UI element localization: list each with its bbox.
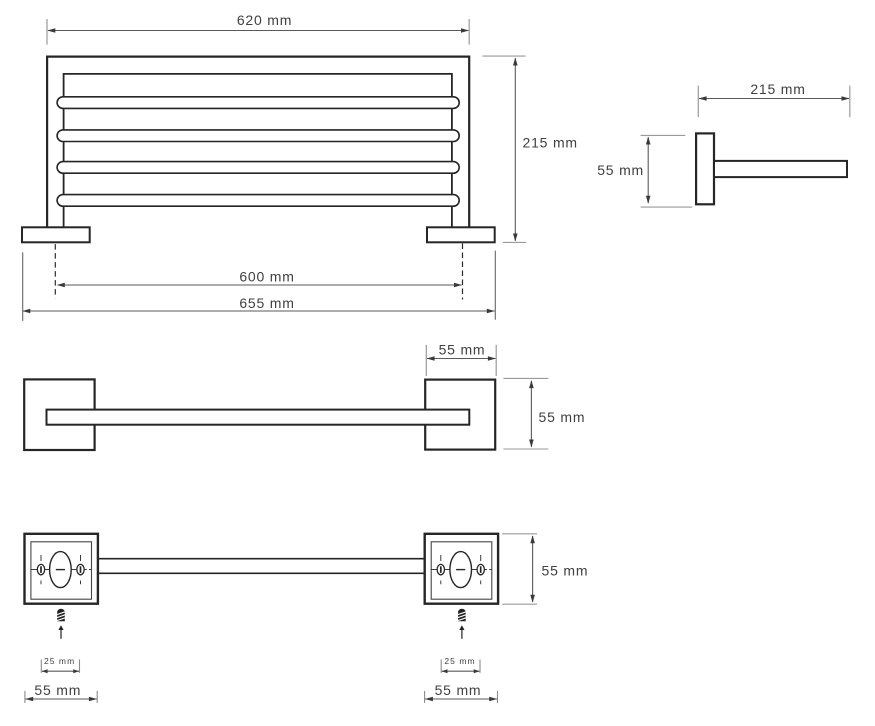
dimension 600 mm arrow right bbox=[454, 283, 462, 288]
rail 2 bbox=[57, 130, 459, 142]
dimension 55 mm bottom-view-right arrow bottom bbox=[530, 595, 535, 603]
bottom left plate center dash bbox=[56, 569, 65, 571]
svg-text:215 mm: 215 mm bbox=[523, 135, 578, 151]
svg-text:55 mm: 55 mm bbox=[597, 162, 644, 178]
dimension 55 mm side arrow top bbox=[646, 137, 651, 145]
dimension 655 mm extension right bbox=[494, 251, 496, 320]
dimension 55 mm bottom-view-right line bbox=[532, 536, 534, 602]
dimension 55 mm bottom-right arrow R bbox=[489, 697, 497, 702]
bottom right plate horizontal centerline bbox=[431, 569, 492, 571]
rail 4 bbox=[57, 195, 459, 207]
svg-text:620 mm: 620 mm bbox=[237, 12, 292, 28]
dimension 215 mm side tick left bbox=[697, 86, 699, 118]
dimension 25 mm left line bbox=[42, 670, 79, 672]
svg-text:55 mm: 55 mm bbox=[539, 409, 586, 425]
dimension 215 mm front extension top bbox=[482, 55, 525, 57]
bottom left hole L bbox=[37, 564, 44, 574]
dimension 25 mm right arrow R bbox=[474, 669, 480, 673]
bottom bar bottom edge bbox=[98, 572, 425, 574]
dimension 55 mm bottom-view-right extension top bbox=[502, 533, 537, 535]
dimension 655 mm line bbox=[23, 310, 495, 312]
mid left square bbox=[24, 379, 94, 450]
side arm bbox=[714, 161, 847, 177]
dimension 55 mm mid-right extension bottom bbox=[503, 448, 548, 450]
dimension 600 mm line bbox=[58, 284, 462, 286]
side wall plate bbox=[696, 133, 714, 204]
dimension 655 mm arrow right bbox=[487, 309, 495, 314]
dashed centerline right foot bbox=[462, 244, 464, 300]
svg-text:215 mm: 215 mm bbox=[750, 81, 805, 97]
bottom left hole L centerline bbox=[40, 555, 42, 584]
bottom bar top edge bbox=[98, 558, 425, 560]
dimension 215 mm front line bbox=[514, 58, 516, 241]
left screw arrow bbox=[58, 625, 63, 639]
svg-text:25 mm: 25 mm bbox=[44, 656, 75, 666]
dimension 215 mm front arrow bottom bbox=[513, 234, 518, 242]
bottom left plate center ellipse bbox=[50, 552, 72, 588]
dimension 55 mm bottom-right arrow L bbox=[425, 697, 433, 702]
right foot bbox=[427, 227, 495, 242]
dimension 55 mm bottom-left arrow R bbox=[89, 697, 97, 702]
dimension 215 mm side arrow left bbox=[699, 96, 707, 101]
dimension 25 mm right line bbox=[442, 670, 479, 672]
dimension 215 mm front arrow top bbox=[513, 58, 518, 66]
dimension 25 mm right tick L bbox=[440, 660, 442, 673]
dimension 55 mm bottom-left tick R bbox=[96, 691, 98, 703]
dimension 55 mm bottom-right line bbox=[425, 698, 497, 700]
dimension 25 mm left arrow R bbox=[73, 669, 79, 673]
rail 3 bbox=[57, 162, 459, 174]
bottom left hole R bbox=[77, 564, 84, 574]
dimension 620 mm extension tick left bbox=[46, 19, 48, 45]
dimension 25 mm right arrow L bbox=[442, 669, 448, 673]
bottom right hole R centerline bbox=[480, 555, 482, 584]
dimension 55 mm mid-right extension top bbox=[503, 377, 548, 379]
svg-text:655 mm: 655 mm bbox=[239, 295, 294, 311]
dimension 215 mm side arrow right bbox=[842, 96, 850, 101]
dimension 215 mm side line bbox=[699, 98, 849, 100]
dimension 600 mm arrow left bbox=[57, 283, 65, 288]
dimension 215 mm front extension bottom bbox=[503, 241, 526, 243]
svg-text:55 mm: 55 mm bbox=[435, 682, 482, 698]
bottom left hole R slot bbox=[80, 566, 82, 573]
bottom right hole R slot bbox=[480, 566, 482, 573]
dimension 655 mm extension left bbox=[22, 252, 24, 321]
dimension 55 mm mid-right arrow bottom bbox=[529, 440, 534, 448]
bottom right plate outer bbox=[425, 534, 498, 604]
bottom right hole L slot bbox=[440, 566, 442, 573]
dimension 25 mm left arrow L bbox=[42, 669, 48, 673]
bottom left hole L slot bbox=[40, 566, 42, 573]
dimension 620 mm arrow right bbox=[461, 28, 469, 33]
dimension 55 mm mid arrow right bbox=[488, 356, 496, 361]
dimension 55 mm side extension bottom bbox=[641, 206, 693, 208]
dimension 620 mm extension tick right bbox=[468, 19, 470, 45]
bottom right hole R bbox=[477, 564, 484, 574]
dimension 620 mm arrow left bbox=[47, 28, 55, 33]
dimension 55 mm bottom-left arrow L bbox=[25, 697, 33, 702]
dimension 55 mm side arrow bottom bbox=[646, 196, 651, 204]
right screw bbox=[458, 609, 466, 621]
bottom right plate center ellipse bbox=[450, 552, 472, 588]
mid bar bbox=[47, 410, 470, 425]
dimension 55 mm mid-right line bbox=[530, 381, 532, 447]
bottom left plate horizontal centerline bbox=[31, 569, 92, 571]
dimension 55 mm mid line bbox=[427, 358, 496, 360]
dimension 55 mm bottom-left line bbox=[26, 698, 97, 700]
dimension 55 mm bottom-right tick R bbox=[497, 691, 499, 703]
dimension 55 mm side line bbox=[647, 137, 649, 203]
right screw arrow bbox=[459, 625, 464, 639]
dimension 55 mm mid tick right bbox=[495, 345, 497, 376]
bottom right plate center dash bbox=[456, 569, 465, 571]
dashed centerline left foot bbox=[54, 244, 56, 298]
front frame outer outline bbox=[47, 57, 469, 228]
dimension 215 mm side tick right bbox=[849, 86, 851, 118]
dimension 55 mm mid-right arrow top bbox=[529, 380, 534, 388]
bottom right hole L centerline bbox=[440, 555, 442, 584]
left foot bbox=[22, 227, 90, 242]
svg-text:55 mm: 55 mm bbox=[34, 682, 81, 698]
dimension 55 mm bottom-right tick L bbox=[424, 691, 426, 703]
dimension 55 mm mid tick left bbox=[425, 345, 427, 376]
dimension 55 mm bottom-left tick L bbox=[24, 691, 26, 703]
dimension 25 mm left tick L bbox=[40, 660, 42, 673]
bottom left plate outer bbox=[25, 534, 98, 604]
dimension 55 mm side extension top bbox=[641, 134, 686, 136]
rail 1 bbox=[57, 97, 459, 109]
svg-text:55 mm: 55 mm bbox=[439, 342, 486, 358]
dimension 25 mm left tick R bbox=[79, 660, 81, 673]
dimension 25 mm right tick R bbox=[479, 660, 481, 673]
bottom left plate inner bbox=[31, 542, 92, 599]
dimension 655 mm arrow left bbox=[22, 309, 30, 314]
dimension 55 mm bottom-view-right extension bottom bbox=[502, 603, 537, 605]
left screw bbox=[57, 609, 65, 621]
dimension 55 mm bottom-view-right arrow top bbox=[530, 535, 535, 543]
bottom right hole L bbox=[437, 564, 444, 574]
svg-text:55 mm: 55 mm bbox=[542, 562, 589, 578]
dimension 620 mm line bbox=[48, 30, 468, 32]
bottom right plate inner bbox=[431, 542, 492, 599]
bottom left hole R centerline bbox=[80, 555, 82, 584]
dimension 55 mm mid arrow left bbox=[427, 356, 435, 361]
mid right square bbox=[425, 380, 495, 450]
svg-text:600 mm: 600 mm bbox=[239, 269, 294, 285]
front frame inner outline bbox=[64, 74, 452, 227]
svg-text:25 mm: 25 mm bbox=[444, 656, 475, 666]
